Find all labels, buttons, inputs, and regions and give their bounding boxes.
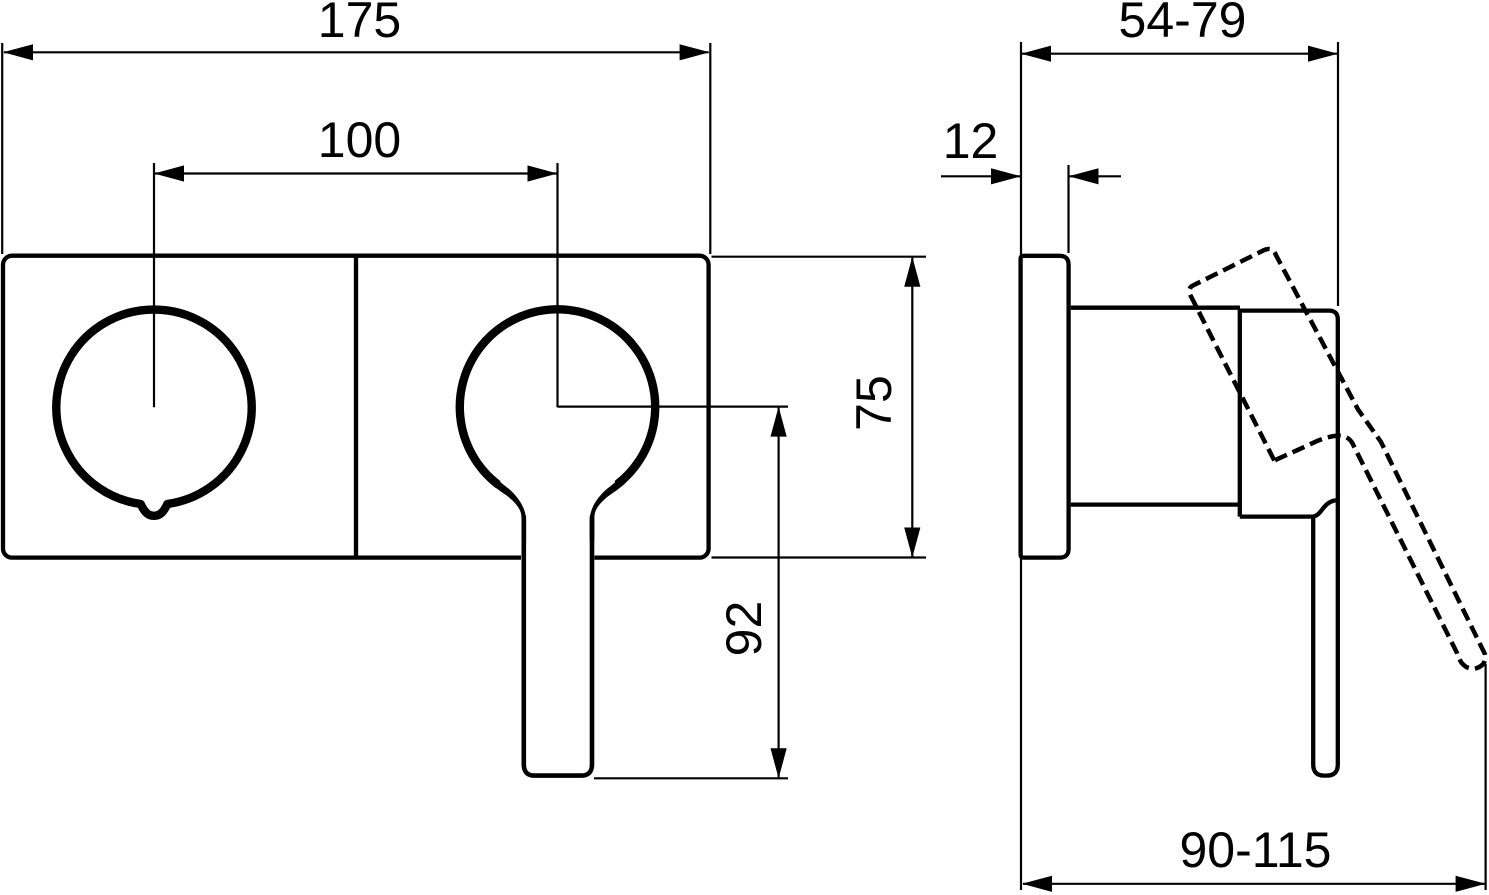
right handle left fillet (tapered) xyxy=(489,477,526,543)
dimension 54-79: label xyxy=(1119,0,1247,48)
svg-text:75: 75 xyxy=(846,375,902,431)
dimension 90-115: dimension line with arrows xyxy=(1022,876,1486,892)
dimension 90-115: extension line right xyxy=(1484,664,1486,890)
dimension 12: label xyxy=(943,113,999,169)
dimension 90-115: label xyxy=(1180,822,1332,878)
side view: wall plate xyxy=(1021,256,1069,558)
dimension 100: label xyxy=(318,112,401,168)
lever stem (front view) xyxy=(524,516,592,776)
dimension 54-79: dimension line with arrows xyxy=(1021,46,1338,62)
side view: handle assembly (escutcheon + lever), solid xyxy=(1240,311,1338,776)
svg-text:175: 175 xyxy=(318,0,401,48)
right handle circle xyxy=(460,309,655,484)
dimension 12: extension line right xyxy=(1067,165,1069,253)
side view: handle assembly rotated (dashed alternate position) xyxy=(1189,249,1485,669)
white mask: lever occludes plate bottom edge xyxy=(521,500,595,780)
dimension 92: extension lines xyxy=(558,407,789,779)
svg-text:54-79: 54-79 xyxy=(1119,0,1247,48)
dimension 75: label (rotated) xyxy=(846,375,902,431)
dimension 92: dimension line with arrows xyxy=(771,407,787,779)
svg-text:92: 92 xyxy=(716,601,772,657)
dimension 100: extension lines into circle centers xyxy=(154,163,558,407)
dimension 100: dimension line with arrows xyxy=(154,165,558,181)
right handle right fillet (tapered) xyxy=(590,477,626,543)
dimension 175: dimension line with arrows xyxy=(3,44,710,60)
dimension 75: dimension line with arrows xyxy=(904,257,920,558)
side view: body top line xyxy=(1071,306,1240,310)
svg-text:90-115: 90-115 xyxy=(1180,822,1332,878)
side view: body bottom line xyxy=(1071,502,1240,506)
dimension 175: extension lines xyxy=(2,43,710,254)
svg-text:100: 100 xyxy=(318,112,401,168)
dimension 12: dimension line with outside arrows xyxy=(941,168,1121,184)
left handle circle with bottom notch xyxy=(56,310,251,516)
dimension 92: label (rotated) xyxy=(716,601,772,657)
front plate (rosette) outline xyxy=(3,256,709,558)
dimension 75: extension lines xyxy=(712,257,927,558)
svg-text:12: 12 xyxy=(943,113,999,169)
plate divider line xyxy=(354,257,358,557)
dimension 175: label xyxy=(318,0,401,48)
dimension 54-79: extension lines xyxy=(1021,42,1338,890)
